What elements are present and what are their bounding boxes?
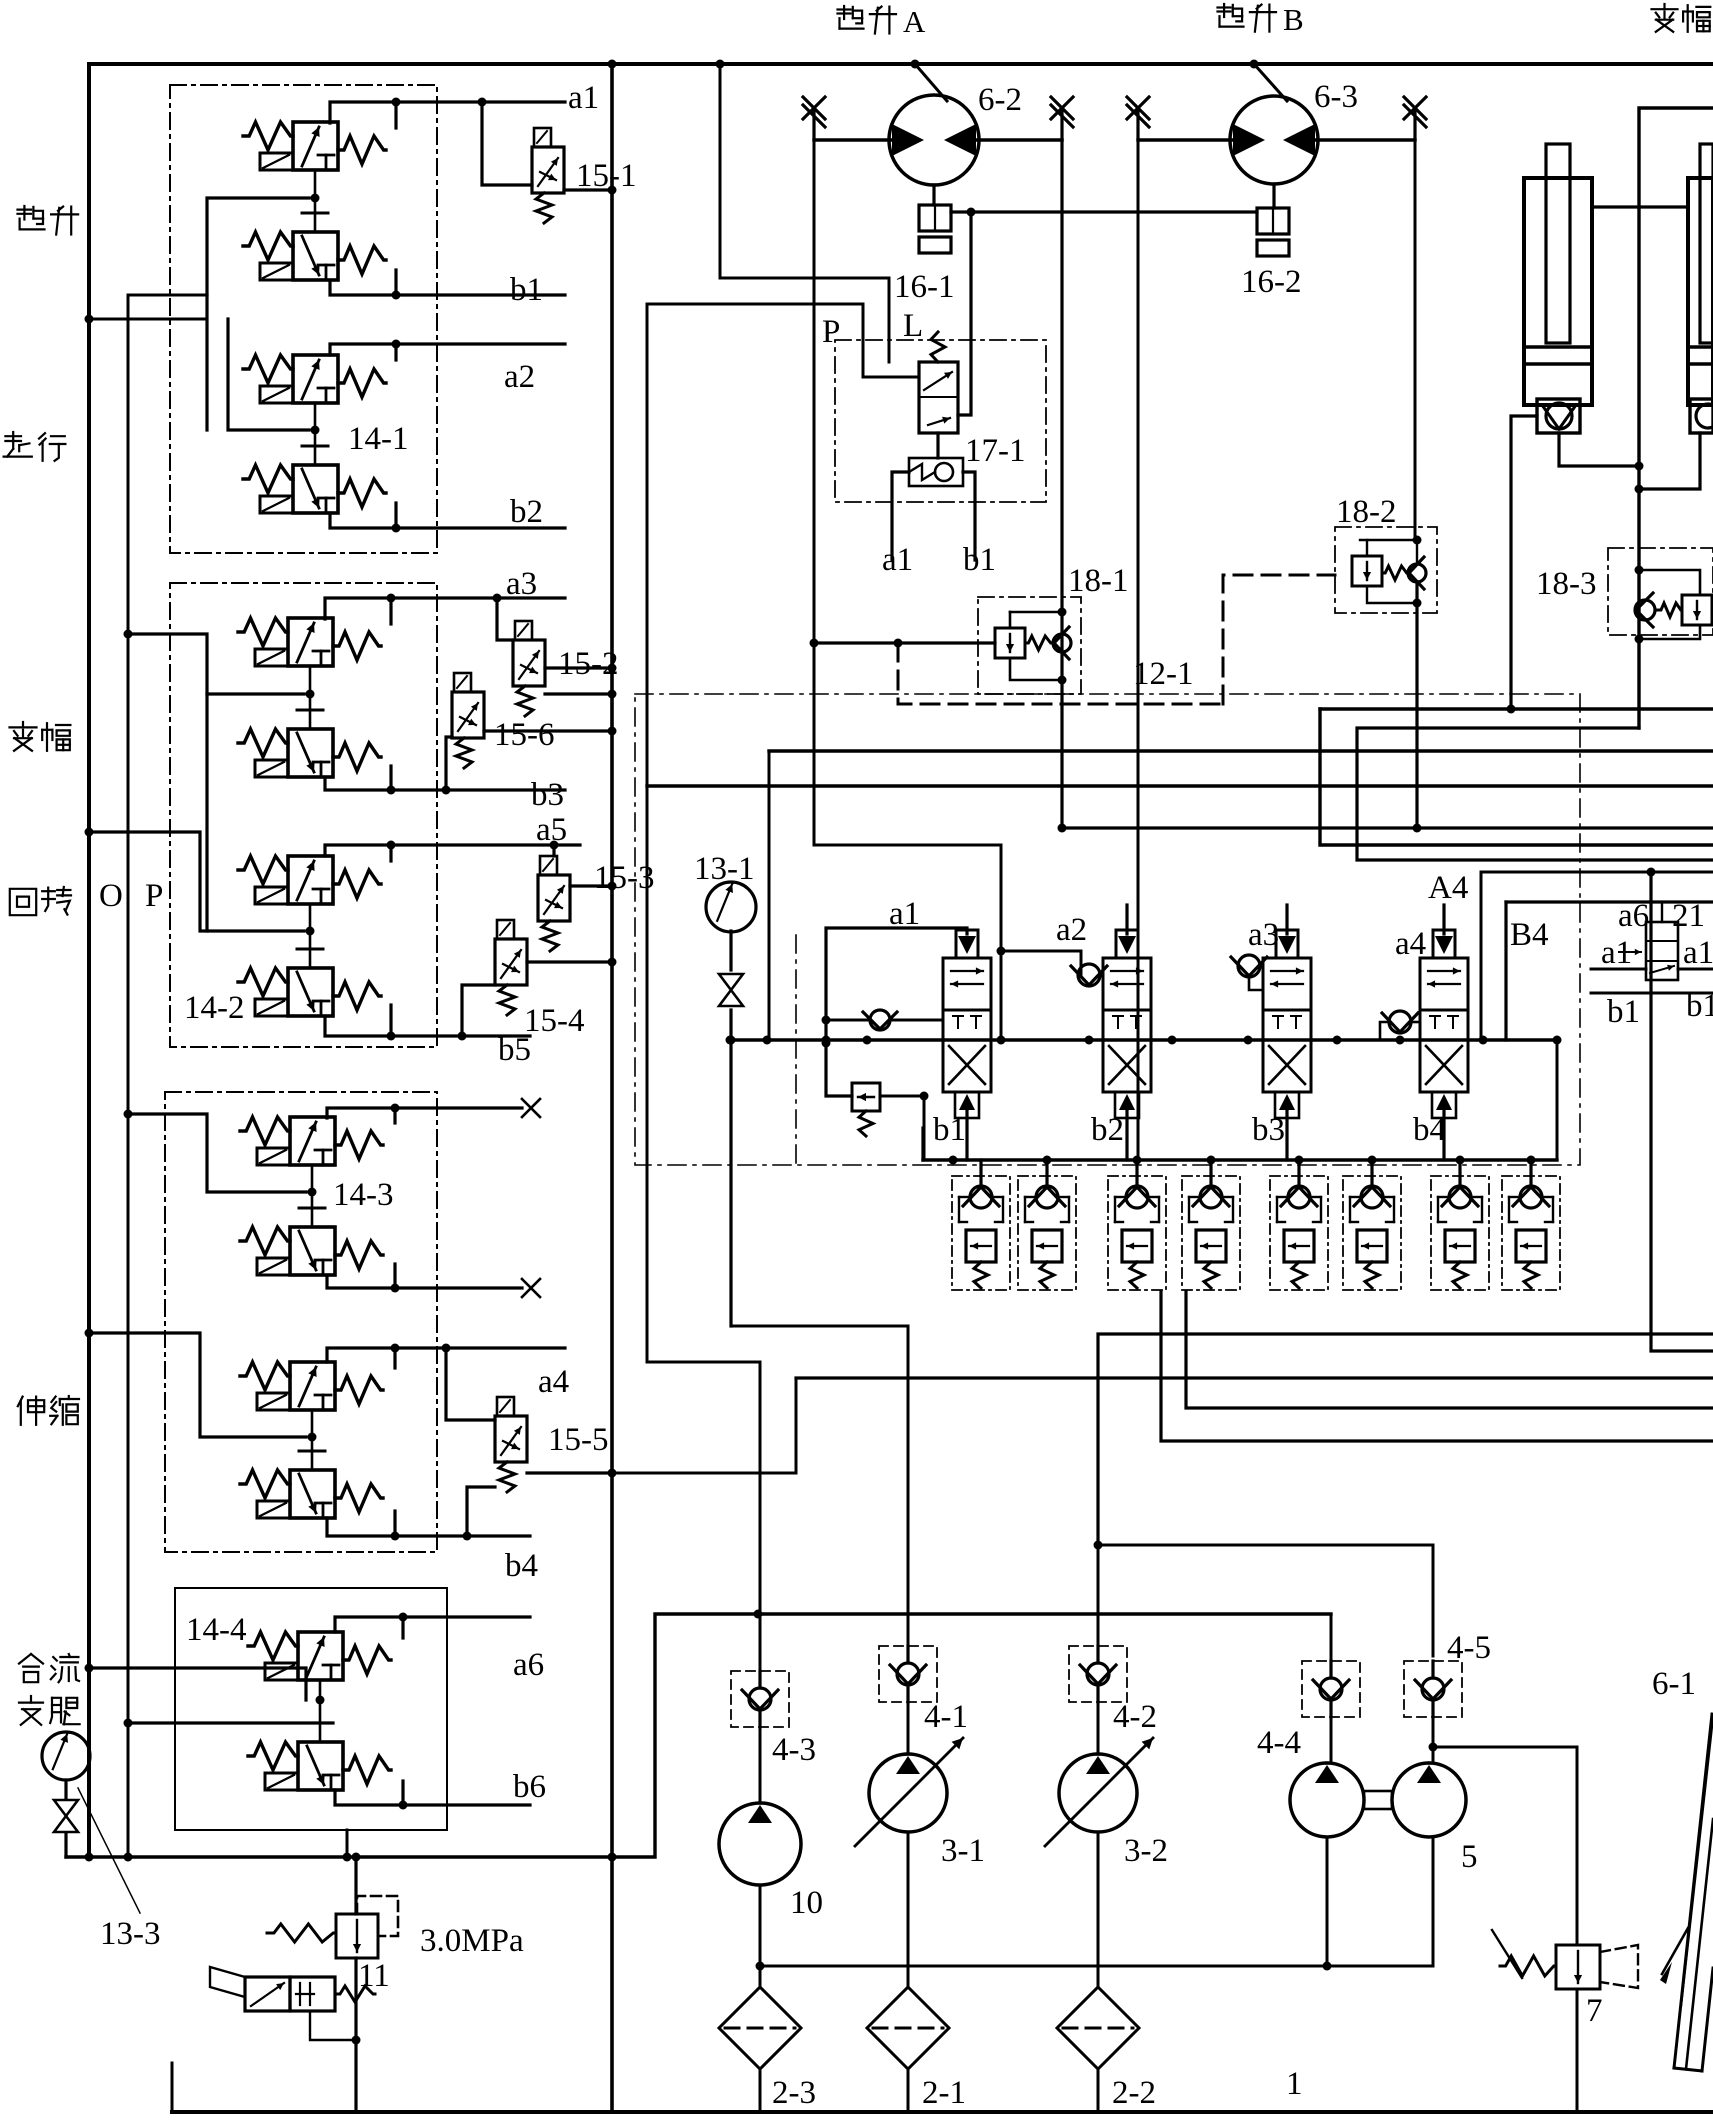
bank b-port bus bbox=[923, 1158, 1557, 1161]
check-relief unit x1460 bbox=[1431, 1176, 1489, 1290]
wire 4-4 column bbox=[1330, 1614, 1333, 1661]
pilot valve 14-1.4 bbox=[293, 465, 338, 513]
wire jog to pump3-1 bbox=[731, 1326, 908, 1646]
cylinder luff 2 rod bbox=[1700, 144, 1713, 343]
pilot valve 14-2.4 bbox=[288, 968, 333, 1016]
linkage 14-3 upper pair bbox=[311, 1165, 314, 1227]
pilot valve 14-3.3 bbox=[290, 1362, 335, 1410]
wire a3 to 15-2 bbox=[497, 598, 513, 640]
wire 15-5 out riser to A-line bbox=[612, 1378, 796, 1473]
valve 18-2 body bbox=[1352, 556, 1382, 586]
svg-text:4-3: 4-3 bbox=[772, 1732, 816, 1768]
svg-text:2-2: 2-2 bbox=[1112, 2075, 1156, 2111]
wire into 18-1 bbox=[814, 641, 995, 644]
wire line y1442 bbox=[1161, 1292, 1713, 1441]
shuttle valve 15-1 bbox=[534, 128, 551, 147]
check 17-1 bbox=[909, 458, 963, 486]
svg-text:a3: a3 bbox=[1248, 917, 1279, 953]
wire 18-1 internal top bbox=[1010, 611, 1062, 614]
label 变幅 left bbox=[22, 722, 24, 727]
svg-text:1: 1 bbox=[1286, 2066, 1303, 2102]
pilot valve 14-3.1 bbox=[290, 1117, 335, 1165]
wire 15-4 out bbox=[527, 960, 612, 963]
svg-text:3-2: 3-2 bbox=[1124, 1833, 1168, 1869]
wire 14-1 internal rails bbox=[207, 198, 309, 295]
svg-text:14-3: 14-3 bbox=[333, 1177, 394, 1213]
wire line y751 bbox=[769, 749, 1713, 752]
check 4-5 bbox=[1404, 1661, 1462, 1717]
bank inner boundary bbox=[795, 935, 797, 1165]
wire B4 riser bbox=[1504, 902, 1507, 1040]
svg-text:3-1: 3-1 bbox=[941, 1833, 985, 1869]
check 4-3 bbox=[731, 1671, 789, 1727]
wire motor6-2 shaft bbox=[915, 64, 947, 101]
svg-text:A4: A4 bbox=[1428, 870, 1468, 906]
wire b5 bbox=[325, 1017, 530, 1036]
svg-text:15-3: 15-3 bbox=[594, 860, 655, 896]
wire 14-4 tap P bbox=[89, 1668, 306, 1700]
pilot valve 14-1.3 bbox=[293, 355, 338, 403]
svg-text:21: 21 bbox=[1672, 898, 1705, 934]
svg-text:a6: a6 bbox=[1618, 898, 1649, 934]
svg-text:14-2: 14-2 bbox=[184, 990, 245, 1026]
check before spool2 bbox=[1078, 964, 1100, 986]
pilot valve 14-2.1 bbox=[288, 618, 333, 666]
cylinder luff 2 body bbox=[1688, 178, 1713, 405]
filter 2-1 bbox=[867, 1987, 949, 2069]
svg-text:a3: a3 bbox=[506, 566, 537, 602]
bank outline 12-1 bbox=[635, 694, 1580, 1165]
label 回转 left bbox=[10, 889, 36, 915]
svg-text:18-1: 18-1 bbox=[1068, 563, 1129, 599]
cylinder luff 2 piston bbox=[1688, 345, 1713, 349]
linkage 14-1 lower pair bbox=[314, 403, 317, 465]
label 伸缩 left bbox=[18, 1397, 23, 1407]
wire cyl1 to mid bbox=[1559, 433, 1639, 466]
wire gauge13-1 column bbox=[729, 931, 732, 970]
wire a1 stub bbox=[892, 472, 909, 560]
label 变幅 top-right bbox=[1663, 4, 1665, 9]
valve group box 14-2 bbox=[170, 583, 437, 1047]
svg-text:4-2: 4-2 bbox=[1113, 1699, 1157, 1735]
bank feed bus bbox=[730, 1038, 1557, 1041]
wire line y1334 bbox=[1098, 1334, 1713, 1545]
svg-text:B: B bbox=[1283, 2, 1304, 37]
pilot valve 14-3.4 bbox=[290, 1470, 335, 1518]
pilot valve 14-1.1 bbox=[293, 122, 338, 170]
wire hoistA drop bbox=[720, 64, 889, 362]
balance valve cyl2 bbox=[1690, 399, 1713, 433]
shuttle valve 15-6 bbox=[454, 673, 471, 692]
svg-text:6-1: 6-1 bbox=[1652, 1666, 1696, 1702]
check-relief unit x1047 bbox=[1018, 1176, 1076, 1290]
wire mid vertical bus x612 bbox=[610, 64, 614, 2112]
wire 14-2 tap P bbox=[128, 634, 304, 694]
svg-text:18-2: 18-2 bbox=[1336, 494, 1397, 530]
wire line y828 bbox=[1062, 826, 1713, 829]
pump 3-2 bbox=[1059, 1754, 1137, 1832]
svg-text:a6: a6 bbox=[513, 1647, 544, 1683]
wire b-bus right link bbox=[1556, 1040, 1559, 1160]
svg-text:12-1: 12-1 bbox=[1133, 656, 1194, 692]
svg-text:16-1: 16-1 bbox=[894, 269, 955, 305]
label 合流支腿 left bbox=[19, 1654, 31, 1664]
shutoff 13-1 bbox=[719, 974, 743, 990]
wire b1 bbox=[330, 281, 565, 295]
wire 14-4 tap O bbox=[128, 1721, 333, 1724]
filter 2-3 bbox=[719, 1987, 801, 2069]
wire brake to L bbox=[951, 210, 971, 213]
wire cyl2 to mid bbox=[1639, 433, 1700, 489]
wire a5 bbox=[325, 845, 580, 856]
plug right 6-2 bbox=[1060, 109, 1063, 140]
wire pump5 feed bbox=[1098, 1545, 1433, 1656]
wire drop x769 to bank bbox=[768, 751, 771, 1040]
svg-text:16-2: 16-2 bbox=[1241, 264, 1302, 300]
wire pump3-2 column bbox=[1097, 1545, 1100, 1646]
wire P supply vertical x647 bbox=[647, 304, 760, 1672]
pilot valve 14-1.2 bbox=[293, 232, 338, 280]
svg-text:6-2: 6-2 bbox=[978, 82, 1022, 118]
relief valve 11 bbox=[336, 1914, 378, 1958]
motor 6-2 bbox=[889, 95, 979, 185]
svg-text:b1: b1 bbox=[1607, 994, 1640, 1030]
check before spool3 bbox=[1238, 955, 1260, 977]
wire top bus P bbox=[89, 62, 1713, 66]
wire cyl cross link bbox=[1592, 205, 1688, 208]
spool unit 4 bbox=[1442, 905, 1445, 934]
wire motor return x1415 to 18-2 bbox=[1414, 140, 1417, 540]
wire relief to b-bus bbox=[923, 1096, 926, 1160]
wire 14-2 tap O bbox=[89, 832, 304, 931]
label 走行 left bbox=[5, 435, 21, 437]
wire valve21 a-line bbox=[1591, 968, 1646, 971]
wire valve21 stub bbox=[1661, 902, 1663, 922]
wire a2 bbox=[330, 344, 565, 355]
balance valve 18-1 block bbox=[978, 597, 1081, 694]
wire b4 bbox=[327, 1518, 530, 1536]
svg-text:18-3: 18-3 bbox=[1536, 566, 1597, 602]
gauge 13-3 bbox=[42, 1732, 90, 1780]
check 4-1 bbox=[879, 1646, 937, 1702]
svg-text:a2: a2 bbox=[1056, 912, 1087, 948]
check-relief unit x1531 bbox=[1502, 1176, 1560, 1290]
wire line y709 bbox=[1320, 707, 1713, 710]
pointer line 13-3 bbox=[78, 1788, 140, 1913]
wire 17-1 to check bbox=[936, 433, 939, 458]
wire a5 to 15-3 bbox=[552, 845, 555, 856]
gauge 13-1 bbox=[706, 882, 756, 932]
wire line y786 bbox=[647, 784, 1713, 787]
shutoff 13-3 bbox=[54, 1800, 78, 1816]
check-relief unit x1137 bbox=[1108, 1176, 1166, 1290]
svg-text:a5: a5 bbox=[536, 812, 567, 848]
wire 14-3 tap O bbox=[89, 1333, 306, 1437]
svg-text:a1: a1 bbox=[882, 542, 913, 578]
svg-text:15-5: 15-5 bbox=[548, 1422, 609, 1458]
wire 18-3 column bbox=[1637, 570, 1640, 728]
wire 15-6 out bbox=[484, 729, 612, 732]
wire x-port upper bbox=[327, 1108, 522, 1118]
wire motor return x1138 bbox=[1137, 140, 1140, 1160]
valve group box 14-4 bbox=[175, 1588, 447, 1830]
valve 18-3 body bbox=[1635, 600, 1655, 620]
svg-text:3.0MPa: 3.0MPa bbox=[420, 1923, 524, 1959]
pilot valve 14-3.2 bbox=[290, 1227, 335, 1275]
check before spool1 bbox=[870, 1010, 890, 1030]
wire 15-5 out bbox=[527, 1471, 612, 1474]
wire L into 17-1 bbox=[958, 212, 971, 415]
node junctions top bus bbox=[608, 60, 617, 69]
wire b6 bbox=[335, 1790, 530, 1805]
wire mid vertical x1641 bbox=[1639, 108, 1713, 570]
check-relief unit x1299 bbox=[1270, 1176, 1328, 1290]
shuttle valve 15-2 bbox=[515, 621, 532, 640]
wire pump10 column lower bbox=[759, 1726, 762, 1803]
balance valve 18-3 block bbox=[1608, 548, 1713, 635]
label 起升 left bbox=[18, 209, 32, 211]
pilot valve 14-4.1 bbox=[298, 1632, 343, 1680]
valve 18-1 body bbox=[995, 628, 1025, 658]
svg-text:O: O bbox=[99, 878, 123, 914]
wire 14-2 internal rail bbox=[205, 694, 208, 931]
balance valve 18-2 block bbox=[1335, 527, 1437, 613]
svg-text:5: 5 bbox=[1461, 1839, 1478, 1875]
wire link x1320 bbox=[1320, 709, 1713, 845]
wire 15-3 out bbox=[570, 884, 612, 887]
wire pump5 suction bbox=[1326, 1837, 1329, 1966]
wire O stub group1 bbox=[89, 318, 207, 321]
svg-text:P: P bbox=[145, 878, 163, 914]
svg-text:14-4: 14-4 bbox=[186, 1612, 247, 1648]
wire filters to tank bbox=[759, 2069, 762, 2112]
wire a1 bbox=[330, 102, 565, 123]
check 4-2 bbox=[1069, 1646, 1127, 1702]
wire pump3-1 column lower bbox=[907, 1702, 910, 1754]
svg-text:2-1: 2-1 bbox=[922, 2075, 966, 2111]
wire valve11 column bbox=[354, 1857, 357, 1914]
svg-text:b1: b1 bbox=[510, 272, 543, 308]
wire 18-2 internal bbox=[1366, 540, 1368, 556]
spool unit 2 bbox=[1125, 905, 1128, 934]
pilot dashed 18-1 bbox=[898, 643, 1223, 704]
pump 5 twin bbox=[1290, 1763, 1364, 1837]
motor 6-3 bbox=[1230, 96, 1318, 184]
svg-text:13-1: 13-1 bbox=[694, 851, 755, 887]
brake 16-2 bbox=[1272, 184, 1275, 208]
wire a6 bbox=[335, 1617, 530, 1632]
svg-text:P: P bbox=[822, 314, 840, 350]
wire relief7 to tank bbox=[1576, 1989, 1579, 2112]
balance valve cyl1 bbox=[1537, 399, 1580, 433]
spool unit 3 bbox=[1285, 905, 1288, 934]
valve group box 14-3 bbox=[165, 1092, 437, 1552]
wire 15-6 in bbox=[446, 737, 452, 790]
pilot valve 14-2.2 bbox=[288, 729, 333, 777]
wire 15-2 out bbox=[545, 666, 612, 669]
wire a3 bbox=[325, 598, 565, 619]
wire 15-4 in bbox=[462, 985, 495, 1036]
wire P into 17-1 bbox=[647, 304, 919, 377]
wire A4 riser bbox=[1480, 872, 1483, 1040]
wire suction bus bbox=[760, 1965, 1433, 1968]
cylinder luff 1 body bbox=[1524, 178, 1592, 405]
wire motor line B bbox=[1138, 138, 1232, 141]
spool unit 1 bbox=[965, 928, 968, 934]
wire line y1351 bbox=[1651, 872, 1713, 1351]
shuttle valve 15-5 bbox=[497, 1397, 514, 1416]
check before spool4 bbox=[1389, 1011, 1411, 1033]
valve 17-1 body bbox=[919, 362, 958, 433]
check-relief unit x981 bbox=[952, 1176, 1010, 1290]
svg-text:a1: a1 bbox=[568, 80, 599, 116]
wire a1 loop bbox=[826, 928, 965, 1096]
label 起升A bbox=[838, 8, 851, 10]
valve 17-1 block bbox=[835, 340, 1046, 502]
svg-text:L: L bbox=[903, 308, 923, 344]
wire line y1409 bbox=[1186, 1292, 1713, 1408]
cylinder luff 1 rod bbox=[1546, 144, 1570, 343]
svg-text:13-3: 13-3 bbox=[100, 1916, 161, 1952]
svg-text:b3: b3 bbox=[531, 777, 564, 813]
wire b3 bbox=[325, 778, 565, 790]
pilot valve 14-2.3 bbox=[288, 856, 333, 904]
svg-text:4-1: 4-1 bbox=[924, 1699, 968, 1735]
svg-text:14-1: 14-1 bbox=[348, 421, 409, 457]
linkage 14-3 lower pair bbox=[311, 1410, 314, 1470]
svg-text:a1: a1 bbox=[1683, 935, 1713, 971]
wire line y727 bbox=[1357, 728, 1713, 860]
wire left border O-line bbox=[87, 64, 91, 1857]
node gauge column on bank bus bbox=[727, 1036, 736, 1045]
plug left 6-2 bbox=[812, 109, 815, 140]
svg-text:15-4: 15-4 bbox=[524, 1003, 585, 1039]
wire a1 to 15-1 bbox=[482, 102, 532, 185]
svg-text:7: 7 bbox=[1586, 1993, 1603, 2029]
wire 4-5 column bbox=[1432, 1717, 1435, 1747]
wire 18-2 down bbox=[1415, 582, 1418, 828]
wire relief7 feed bbox=[1433, 1747, 1577, 1945]
wire valve21 b-line bbox=[1591, 992, 1713, 995]
wire pilot supply bottom bbox=[66, 1614, 1331, 1857]
label 起升B bbox=[1218, 6, 1231, 8]
svg-text:A: A bbox=[903, 4, 926, 39]
cylinder luff 1 piston bbox=[1524, 345, 1592, 349]
svg-text:2-3: 2-3 bbox=[772, 2075, 816, 2111]
plug right 6-3 bbox=[1413, 109, 1416, 140]
check 4-4 bbox=[1302, 1661, 1360, 1717]
brake 16-1 bbox=[932, 185, 935, 205]
svg-text:B4: B4 bbox=[1510, 917, 1549, 953]
wire cyl1 left port bbox=[1511, 416, 1537, 709]
wire P pilot vertical x128 bbox=[127, 295, 130, 1857]
svg-text:b4: b4 bbox=[505, 1548, 538, 1584]
wire motor return x814 bbox=[814, 140, 1001, 1040]
svg-text:a1: a1 bbox=[1601, 935, 1632, 971]
valve 21 aux bbox=[1646, 922, 1678, 980]
wire 15-1 out to bus bbox=[564, 188, 612, 191]
svg-text:a4: a4 bbox=[538, 1364, 569, 1400]
linkage 14-4 pair bbox=[319, 1680, 322, 1742]
wire x-port lower bbox=[327, 1276, 522, 1288]
svg-text:17-1: 17-1 bbox=[965, 433, 1026, 469]
pilot valve 14-4.2 bbox=[298, 1742, 343, 1790]
wire b1 stub bbox=[963, 472, 975, 560]
valve group box 14-1 bbox=[170, 85, 437, 553]
plug left 6-3 bbox=[1136, 109, 1139, 140]
wire b2 bbox=[330, 513, 565, 528]
linkage 14-1 upper pair bbox=[314, 170, 317, 232]
shuttle valve 15-4 bbox=[497, 920, 514, 939]
shuttle valve 15-3 bbox=[540, 856, 557, 875]
wire motor return x1062 bbox=[1060, 140, 1063, 829]
linkage 14-2 lower pair bbox=[309, 904, 312, 968]
svg-text:b1: b1 bbox=[963, 542, 996, 578]
wire 14-4 drop to supply bbox=[346, 1830, 349, 1857]
svg-text:6-3: 6-3 bbox=[1314, 79, 1358, 115]
svg-text:15-2: 15-2 bbox=[558, 646, 619, 682]
wire line y1378 bbox=[796, 1376, 1713, 1379]
check-relief unit x1211 bbox=[1182, 1176, 1240, 1290]
wire 14-3 tap P bbox=[128, 1114, 306, 1192]
wire b-bus left riser bbox=[921, 1128, 924, 1160]
wire 18-1 internal bottom bbox=[1010, 658, 1062, 680]
relief valve 7 bbox=[1556, 1945, 1600, 1989]
wire a4 bbox=[327, 1348, 565, 1362]
tank line bbox=[172, 2110, 1713, 2114]
wire motor line A bbox=[814, 138, 891, 141]
wire return riser x796 bbox=[795, 1378, 798, 1473]
filter 2-2 bbox=[1057, 1987, 1139, 2069]
check-relief unit x1372 bbox=[1343, 1176, 1401, 1290]
svg-text:10: 10 bbox=[790, 1885, 823, 1921]
linkage 14-2 upper pair bbox=[309, 666, 312, 729]
svg-text:4-4: 4-4 bbox=[1257, 1725, 1301, 1761]
svg-text:15-6: 15-6 bbox=[494, 717, 555, 753]
pump 10 bbox=[719, 1803, 801, 1885]
pump 3-1 bbox=[869, 1754, 947, 1832]
svg-text:b6: b6 bbox=[513, 1769, 546, 1805]
solenoid valve 11 pilot bbox=[245, 1977, 290, 2011]
svg-text:4-5: 4-5 bbox=[1447, 1630, 1491, 1666]
wire b4 to 15-5 bbox=[467, 1487, 495, 1536]
svg-text:a2: a2 bbox=[504, 359, 535, 395]
relief spool1 bbox=[852, 1083, 880, 1111]
svg-text:b2: b2 bbox=[510, 494, 543, 530]
wire segment to bus y694 bbox=[545, 692, 612, 695]
wire a4 to 15-5 bbox=[446, 1348, 495, 1420]
wire motor6-3 shaft bbox=[1254, 64, 1287, 101]
